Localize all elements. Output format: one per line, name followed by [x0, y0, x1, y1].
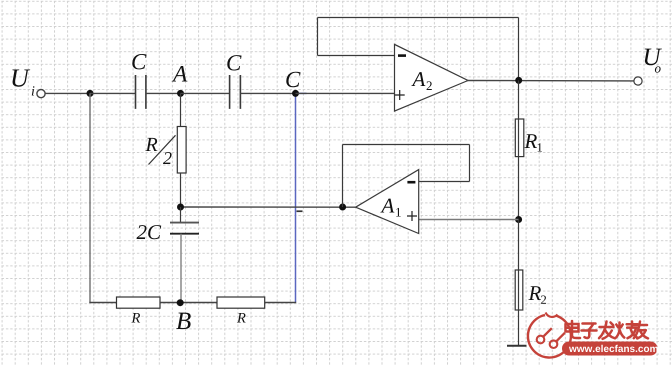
- watermark logo circle: [528, 313, 571, 358]
- label C of node C: [286, 72, 300, 87]
- wire C1 to node A: [146, 92, 181, 94]
- label R right: [237, 313, 246, 322]
- A1 non-inverting pin marker: [407, 211, 417, 221]
- label A: [172, 66, 188, 82]
- char dian: [566, 321, 581, 338]
- A2 feedback wire top horizontal: [318, 17, 519, 19]
- wire node E to capacitor 2C: [180, 207, 182, 223]
- A1 feedback wire top horizontal: [343, 144, 470, 146]
- op-amp A2 body: [395, 44, 469, 111]
- A2 inverting pin marker: [398, 54, 406, 57]
- wire A1 output node to twin-T mid node E: [181, 206, 356, 208]
- capacitor 2C bottom plate: [170, 233, 199, 235]
- A1 feedback wire right vertical: [469, 145, 471, 182]
- char zi: [582, 324, 597, 339]
- label Uo: [645, 49, 662, 66]
- resistor R1: [515, 119, 524, 157]
- junction dot at A1 output: [339, 204, 346, 211]
- watermark text dian-zi-fa-shao-you (drawn strokes): [566, 321, 649, 339]
- input terminal Ui: [37, 90, 45, 98]
- output terminal Uo: [634, 77, 642, 85]
- A2 feedback wire right vertical to output node: [518, 18, 520, 81]
- char you: [634, 322, 648, 339]
- node C dot: [292, 90, 299, 97]
- label Ui: [12, 69, 30, 86]
- resistor R bottom-left: [117, 297, 161, 308]
- char shao: [615, 322, 638, 339]
- node A dot: [177, 90, 184, 97]
- wire output node through R1 to node D: [518, 80, 520, 219]
- wire C2 to node C: [240, 92, 295, 94]
- wire R to blue wire corner: [265, 302, 296, 304]
- wire node A down to R/2: [180, 93, 182, 126]
- op-amp A1 body: [356, 170, 419, 234]
- label C of C2: [227, 55, 241, 70]
- watermark band www.elecfans.com: [562, 342, 658, 356]
- A2 non-inverting pin marker: [395, 90, 405, 100]
- blue wire from node C down to bottom branch: [296, 93, 307, 302]
- label B: [176, 313, 190, 329]
- label A2: [411, 72, 425, 86]
- label A1: [380, 199, 394, 213]
- label C of C1: [132, 54, 146, 69]
- label R1: [524, 134, 537, 148]
- node B dot: [177, 299, 184, 306]
- wire R to node B: [160, 302, 217, 304]
- wire A1 noninverting input from node D: [419, 219, 519, 221]
- resistor R2: [515, 270, 523, 310]
- wire J1 to C1: [90, 92, 136, 94]
- wire bottom left corner to resistor R: [89, 302, 116, 304]
- capacitor C1: [136, 75, 146, 109]
- label R/2: [145, 138, 157, 151]
- label 2C: [137, 225, 162, 239]
- wire node D through R2 to ground: [518, 220, 520, 346]
- A2 feedback wire left vertical: [317, 18, 319, 56]
- node D junction dot: [515, 216, 522, 223]
- resistor R bottom-right: [217, 297, 265, 308]
- A1 feedback wire to inverting input: [419, 181, 470, 183]
- junction node J1: [87, 90, 94, 97]
- resistor R/2: [177, 127, 186, 174]
- small minus label near blue wire crossing: [297, 210, 303, 212]
- A1 inverting pin marker: [407, 181, 415, 184]
- output node dot: [515, 77, 522, 84]
- char fa: [599, 322, 615, 339]
- label R left: [131, 313, 140, 322]
- capacitor C2: [230, 75, 241, 109]
- ground: [507, 345, 527, 347]
- wire input to node J1: [45, 92, 90, 94]
- wire A2 inverting input: [318, 55, 395, 57]
- node E dot: [177, 204, 184, 211]
- capacitor 2C top plate: [170, 222, 199, 224]
- wire 2C to node B: [180, 234, 182, 303]
- wire A2 output to terminal Uo: [467, 80, 635, 82]
- wire R/2 to node E: [180, 173, 182, 207]
- wire left branch vertical from J1: [89, 93, 91, 302]
- wire A to C2: [181, 92, 230, 94]
- A1 feedback wire vertical from output junction: [342, 145, 344, 208]
- label R2: [528, 286, 541, 300]
- wire node C to A2 noninverting input: [296, 92, 395, 94]
